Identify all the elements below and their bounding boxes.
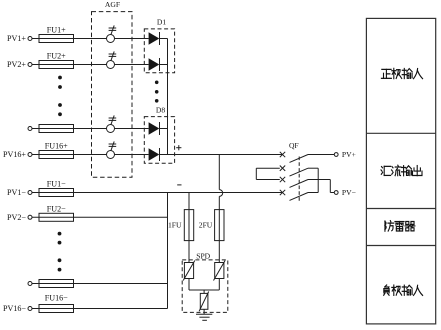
- svg-text:D8: D8: [156, 106, 165, 115]
- svg-text:FU1+: FU1+: [47, 26, 66, 35]
- svg-text:2FU: 2FU: [199, 221, 213, 230]
- svg-text:PV1+: PV1+: [7, 34, 26, 43]
- svg-text:SPD: SPD: [196, 251, 210, 260]
- svg-text:FU2+: FU2+: [47, 52, 66, 61]
- svg-text:PV16+: PV16+: [3, 150, 26, 159]
- svg-text:PV−: PV−: [342, 188, 356, 197]
- svg-text:QF: QF: [289, 141, 299, 150]
- svg-text:PV2+: PV2+: [7, 60, 26, 69]
- svg-text:PV1−: PV1−: [7, 188, 26, 197]
- svg-text:FU16+: FU16+: [45, 142, 68, 151]
- svg-text:PV+: PV+: [342, 150, 356, 159]
- svg-text:FU16−: FU16−: [45, 294, 68, 303]
- svg-text:FU1−: FU1−: [47, 180, 66, 189]
- svg-text:PV16−: PV16−: [3, 304, 26, 313]
- svg-text:D1: D1: [157, 18, 166, 27]
- svg-text:FU2−: FU2−: [47, 204, 66, 213]
- svg-text:1FU: 1FU: [168, 221, 182, 230]
- svg-text:AGF: AGF: [105, 0, 120, 9]
- svg-text:PV2−: PV2−: [7, 213, 26, 222]
